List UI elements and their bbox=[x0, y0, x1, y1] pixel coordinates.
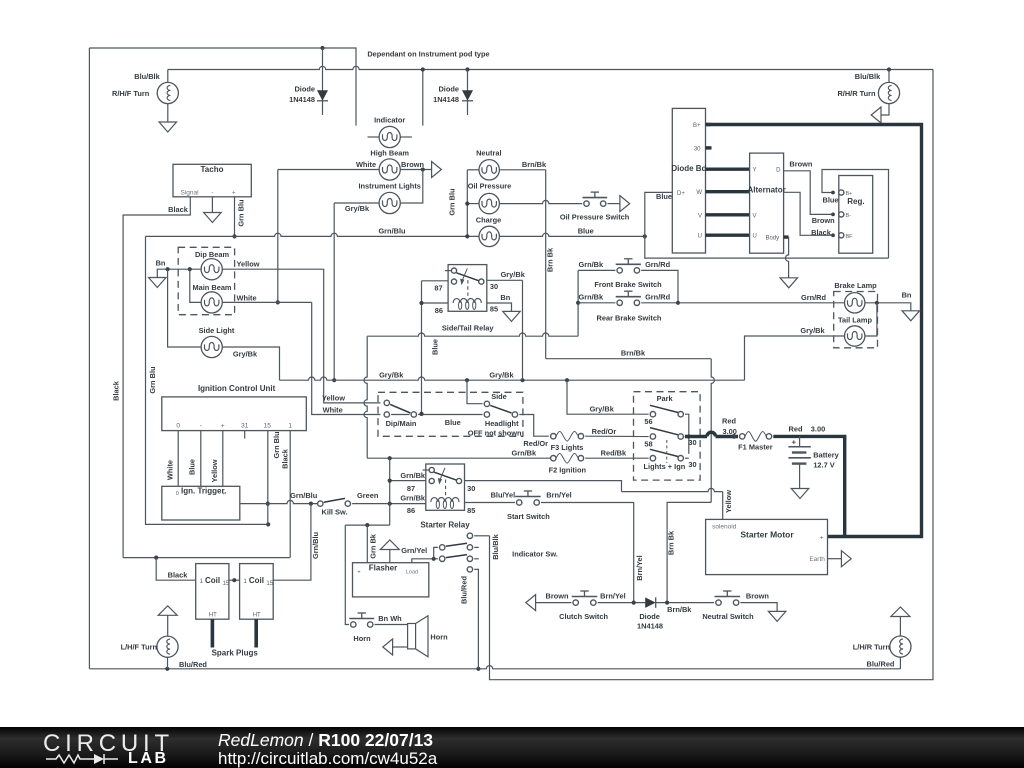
svg-text:Grn Blu: Grn Blu bbox=[448, 188, 457, 216]
lamp cluster bus Grn Blu x=467.3 bbox=[466, 170, 468, 237]
speaker Horn bbox=[408, 624, 416, 649]
thick wire B+ main bbox=[706, 125, 922, 537]
offpage arrow horn bbox=[383, 639, 393, 655]
svg-text:Brn/Bk: Brn/Bk bbox=[667, 605, 692, 614]
svg-text:Alternator: Alternator bbox=[747, 186, 785, 195]
box Alternator bbox=[750, 153, 784, 253]
svg-text:OFF not shown: OFF not shown bbox=[468, 428, 522, 437]
svg-text:Brown: Brown bbox=[812, 216, 835, 225]
wire starter relay 30 to solenoid bbox=[465, 481, 622, 492]
svg-text:Neutral Switch: Neutral Switch bbox=[702, 612, 754, 621]
svg-text:Ign. Trigger.: Ign. Trigger. bbox=[181, 486, 226, 495]
svg-text:+: + bbox=[792, 437, 797, 446]
svg-text:U: U bbox=[698, 234, 702, 240]
svg-text:Tail Lamp: Tail Lamp bbox=[838, 315, 872, 324]
svg-text:D+: D+ bbox=[677, 191, 685, 197]
svg-text:Blu/Red: Blu/Red bbox=[460, 576, 469, 604]
wire ICU pin 1 Black bbox=[289, 431, 291, 558]
svg-text:Start Switch: Start Switch bbox=[507, 512, 550, 521]
battery bbox=[799, 436, 801, 446]
svg-text:Brake Lamp: Brake Lamp bbox=[834, 281, 877, 290]
wire side/tail 30 Gry/Bk down bbox=[487, 279, 523, 281]
wire black to coil1 bbox=[156, 558, 196, 581]
ground Bn tail bbox=[902, 311, 920, 321]
svg-text:Oil Pressure: Oil Pressure bbox=[468, 182, 512, 191]
svg-text:Gry/Bk: Gry/Bk bbox=[379, 371, 404, 380]
svg-text:86: 86 bbox=[435, 306, 443, 315]
fuse F3 Lights bbox=[551, 434, 556, 439]
svg-text:Bn: Bn bbox=[156, 259, 166, 268]
svg-text:Yellow: Yellow bbox=[724, 490, 733, 513]
svg-text:Gry/Bk: Gry/Bk bbox=[501, 270, 526, 279]
svg-text:R/H/R Turn: R/H/R Turn bbox=[837, 89, 876, 98]
svg-text:Diode: Diode bbox=[639, 612, 660, 621]
wire stub from line B down at x=422.8 (open) bbox=[422, 70, 424, 126]
wire Blu/Blk top loop (line B y=69.5) bbox=[168, 66, 933, 69]
wire Brown from D to regulator B- bbox=[784, 171, 833, 215]
svg-text:Red: Red bbox=[722, 416, 736, 425]
svg-text:Blu/Red: Blu/Red bbox=[867, 660, 895, 669]
svg-text:Reg.: Reg. bbox=[847, 197, 864, 206]
wire Grn Blu left vertical x=145.5 bbox=[146, 236, 269, 524]
wire Blu/Blk right loop: x=489.5 down, bottom y=679.7, right border x=933 bbox=[490, 70, 934, 680]
svg-text:Yellow: Yellow bbox=[322, 393, 345, 402]
node Blu/Red - indicator switch junction bbox=[476, 667, 480, 671]
svg-text:solenoid: solenoid bbox=[712, 524, 737, 531]
wire bus y=525.1 flasher/horn bbox=[345, 524, 389, 526]
svg-text:Side Light: Side Light bbox=[199, 326, 235, 335]
svg-text:Blue: Blue bbox=[430, 339, 439, 355]
lamp Tail bbox=[845, 326, 865, 346]
wire Yellow from dip beam bbox=[222, 269, 380, 403]
wire oil lamp to oil switch bbox=[499, 200, 582, 203]
svg-text:Park: Park bbox=[657, 394, 674, 403]
ground neutral switch bbox=[768, 611, 786, 621]
svg-text:Grn/Blu: Grn/Blu bbox=[311, 531, 320, 559]
svg-text:Green: Green bbox=[357, 491, 379, 500]
node 30 junction bbox=[687, 434, 691, 438]
fuse F1 Master bbox=[740, 434, 745, 439]
svg-text:Blue: Blue bbox=[188, 459, 197, 475]
svg-text:BF: BF bbox=[846, 234, 854, 240]
wire neutral diode row y=602.6 bbox=[526, 595, 536, 611]
svg-text:Grn/Blu: Grn/Blu bbox=[378, 227, 406, 236]
ground alternator body bbox=[780, 278, 798, 288]
lamp Dip Beam bbox=[201, 259, 222, 280]
svg-text:Blu/Red: Blu/Red bbox=[179, 660, 207, 669]
box Ign Trigger bbox=[162, 486, 240, 520]
lamp R/H/R Turn bbox=[887, 67, 891, 71]
wire 56 out bbox=[685, 414, 689, 454]
switch Indicator multi bbox=[467, 533, 472, 538]
lamp Neutral bbox=[479, 160, 499, 180]
svg-text:Blu/Blk: Blu/Blk bbox=[134, 72, 160, 81]
offpage arrow oil pressure bbox=[620, 196, 630, 212]
lamp Side Light bbox=[201, 336, 222, 357]
svg-text:Instrument Lights: Instrument Lights bbox=[358, 182, 420, 191]
wire Brn/Bk long y=358.7 bbox=[546, 358, 712, 360]
svg-text:Y: Y bbox=[753, 168, 757, 174]
wire side/tail 85 to ground bbox=[487, 303, 512, 311]
ground R/H/F Turn bbox=[159, 122, 177, 132]
switch Clutch bbox=[573, 600, 578, 605]
wire Grn/Blu bus y=236.4 bbox=[146, 233, 479, 236]
svg-text:Grn/Rd: Grn/Rd bbox=[645, 292, 671, 301]
node Blu/Red - L/H/F lamp junction bbox=[165, 667, 169, 671]
svg-text:86: 86 bbox=[407, 506, 415, 515]
svg-text:Diode Bd: Diode Bd bbox=[671, 164, 706, 173]
switch Oil Pressure bbox=[584, 201, 589, 206]
svg-text:F2 Ignition: F2 Ignition bbox=[549, 466, 587, 475]
wire White to instrument lamp bbox=[278, 169, 379, 171]
svg-text:Grn/Bk: Grn/Bk bbox=[578, 292, 604, 301]
svg-text:Black: Black bbox=[811, 228, 832, 237]
dashed box Park switch bbox=[634, 392, 701, 480]
svg-text:Coil: Coil bbox=[249, 576, 264, 585]
svg-text:Blu/Blk: Blu/Blk bbox=[855, 72, 881, 81]
svg-text:Blue: Blue bbox=[445, 418, 461, 427]
spark plug 2 bbox=[254, 619, 258, 647]
svg-text:Front Brake Switch: Front Brake Switch bbox=[594, 280, 662, 289]
svg-text:85: 85 bbox=[467, 506, 475, 515]
wire Green kill to starter relay bbox=[352, 503, 426, 505]
lamp Indicator with stubs bbox=[368, 136, 380, 138]
svg-text:Gry/Bk: Gry/Bk bbox=[800, 326, 825, 335]
switch Kill Sw bbox=[318, 501, 323, 506]
svg-text:87: 87 bbox=[407, 484, 415, 493]
spark plug 1 bbox=[211, 619, 215, 647]
svg-text:Brn/Bk: Brn/Bk bbox=[621, 349, 646, 358]
node gry/bk relay30 feed bbox=[520, 378, 524, 382]
thick wires diode board to alternator bbox=[706, 167, 750, 170]
switch park 56 bbox=[650, 412, 655, 417]
relay Starter bbox=[426, 464, 465, 510]
svg-text:Lights + Ign: Lights + Ign bbox=[644, 462, 686, 471]
svg-text:30: 30 bbox=[694, 146, 701, 152]
svg-text:31: 31 bbox=[241, 423, 249, 430]
svg-text:U: U bbox=[753, 234, 757, 240]
wire tail lamp link bbox=[865, 303, 877, 336]
svg-text:High Beam: High Beam bbox=[370, 149, 409, 158]
svg-text:Indicator: Indicator bbox=[374, 116, 405, 125]
svg-text:Grn Blu: Grn Blu bbox=[237, 199, 246, 227]
svg-text:Kill Sw.: Kill Sw. bbox=[321, 507, 347, 516]
svg-text:30: 30 bbox=[688, 438, 696, 447]
svg-text:Grn/Bk: Grn/Bk bbox=[400, 471, 426, 480]
wire Brn Bk vertical x=545.7 bbox=[545, 170, 547, 359]
lamp Oil Pressure bbox=[479, 193, 499, 213]
node gry/bk park 56 feed bbox=[565, 378, 569, 382]
svg-text:Coil: Coil bbox=[205, 576, 220, 585]
svg-text:F3 Lights: F3 Lights bbox=[551, 443, 584, 452]
svg-text:F1 Master: F1 Master bbox=[738, 442, 773, 451]
svg-text:Dip/Main: Dip/Main bbox=[386, 419, 417, 428]
svg-text:Signal: Signal bbox=[180, 190, 199, 197]
svg-text:Blu/Yel: Blu/Yel bbox=[491, 490, 516, 499]
dashed box brake/tail lamp bbox=[834, 292, 878, 348]
svg-text:Clutch Switch: Clutch Switch bbox=[559, 612, 608, 621]
svg-text:V: V bbox=[698, 213, 702, 219]
svg-text:Black: Black bbox=[280, 448, 289, 469]
wire side light right Gry/Bk bbox=[222, 347, 279, 380]
wire F3 to park 58 bbox=[585, 435, 648, 437]
wire starter relay 87 bbox=[390, 480, 426, 482]
svg-text:B+: B+ bbox=[846, 191, 853, 197]
chassis arrow flasher bbox=[380, 540, 399, 550]
svg-text:Indicator Sw.: Indicator Sw. bbox=[512, 550, 558, 559]
svg-text:Spark Plugs: Spark Plugs bbox=[212, 648, 259, 657]
wire tail lamp left pin bbox=[843, 335, 845, 337]
wire flasher + feed bbox=[366, 525, 368, 563]
wire Tacho signal Black bbox=[123, 197, 190, 558]
box Reg bbox=[839, 176, 873, 254]
wire earth to arrow bbox=[828, 558, 842, 560]
svg-text:30: 30 bbox=[490, 282, 498, 291]
wire kill switch row from ign trigger bbox=[240, 500, 317, 503]
wire Tacho mid pin to ground bbox=[211, 197, 213, 213]
svg-text:Side: Side bbox=[491, 392, 507, 401]
svg-text:V: V bbox=[753, 213, 757, 219]
lamp Main Beam bbox=[201, 292, 222, 313]
wire Yellow solenoid riser bbox=[722, 492, 724, 520]
svg-text:+: + bbox=[357, 570, 360, 576]
wire main beam left link bbox=[190, 269, 201, 302]
wire side/tail 86 bbox=[422, 302, 449, 304]
svg-text:Grn/Bk: Grn/Bk bbox=[578, 260, 604, 269]
svg-text:Black: Black bbox=[111, 380, 120, 401]
svg-text:1N4148: 1N4148 bbox=[289, 95, 315, 104]
node black coil feed bbox=[154, 556, 158, 560]
svg-text:Brn Bk: Brn Bk bbox=[667, 530, 676, 555]
wire ICU pin 0 white bbox=[177, 431, 179, 487]
switch Rear Brake bbox=[578, 302, 615, 304]
wire Grn/Bk tail bus y=336.2 bbox=[367, 333, 578, 336]
svg-text:1N4148: 1N4148 bbox=[433, 95, 459, 104]
svg-text:Neutral: Neutral bbox=[476, 149, 501, 158]
svg-text:1N4148: 1N4148 bbox=[637, 621, 663, 630]
wire Blue riser to D+ bbox=[645, 192, 673, 236]
svg-text:W: W bbox=[696, 190, 702, 196]
lamp R/H/F Turn bbox=[167, 70, 169, 83]
wire ICU pin - blue bbox=[200, 431, 202, 487]
wire coil1-coil2 link bbox=[229, 579, 240, 581]
svg-text:Brn Bk: Brn Bk bbox=[546, 247, 555, 272]
lamp Charge bbox=[479, 226, 499, 246]
svg-text:12.7 V: 12.7 V bbox=[813, 460, 834, 469]
wire horn button to speaker bbox=[375, 624, 408, 626]
wire Tacho + pin Grn Blu bbox=[234, 197, 236, 237]
wire ICU pin 15 Grn Blu bbox=[267, 431, 269, 525]
box Flasher bbox=[353, 563, 429, 597]
svg-text:Diode: Diode bbox=[438, 85, 459, 94]
svg-text:Brown: Brown bbox=[789, 160, 812, 169]
svg-text:Yellow: Yellow bbox=[237, 260, 260, 269]
wire Blue from charge lamp bbox=[499, 233, 644, 236]
lamp L/H/R Turn with chassis arrow bbox=[891, 607, 910, 617]
svg-text:Headlight: Headlight bbox=[485, 419, 519, 428]
svg-text:Grn Bk: Grn Bk bbox=[368, 533, 377, 559]
lamp Instrument Lights (gry/bk) bbox=[379, 192, 400, 213]
svg-text:Bn: Bn bbox=[500, 293, 510, 302]
switch Start bbox=[517, 500, 522, 505]
svg-text:Diode: Diode bbox=[294, 85, 315, 94]
svg-text:56: 56 bbox=[644, 417, 652, 426]
switch Horn button bbox=[351, 622, 356, 627]
svg-text:Grn/Rd: Grn/Rd bbox=[645, 260, 671, 269]
offpage arrow Brown bbox=[432, 162, 442, 178]
wire Grn/Blu to coil2 bbox=[273, 504, 311, 581]
svg-text:Bn: Bn bbox=[902, 290, 912, 299]
svg-text:30: 30 bbox=[688, 460, 696, 469]
svg-text:Grn/Yel: Grn/Yel bbox=[401, 546, 427, 555]
switch Dip/Main bbox=[384, 400, 389, 405]
svg-text:Horn: Horn bbox=[353, 634, 371, 643]
svg-text:Blu/Blk: Blu/Blk bbox=[491, 533, 500, 559]
svg-text:+: + bbox=[232, 190, 236, 197]
svg-text:Brown: Brown bbox=[401, 160, 424, 169]
node main beam branch bbox=[188, 267, 192, 271]
diode D1 1N4148 bbox=[320, 46, 324, 50]
wire tail lamp riser x=744.5 bbox=[745, 336, 845, 380]
wire left border (Black/Blu-Red loop x=89.4) bbox=[88, 48, 90, 669]
wire White from main beam bbox=[222, 301, 311, 303]
svg-text:Gry/Bk: Gry/Bk bbox=[345, 204, 370, 213]
svg-text:Grn/Rd: Grn/Rd bbox=[801, 293, 827, 302]
svg-text:Brn/Yel: Brn/Yel bbox=[546, 490, 571, 499]
svg-text:Blue: Blue bbox=[578, 226, 594, 235]
svg-text:-: - bbox=[200, 423, 202, 430]
wire top-left line A y=48 with corner down at x=356 bbox=[89, 48, 356, 126]
wire Black from alternator to BF bbox=[784, 192, 833, 235]
diode D3 1N4148 bbox=[645, 597, 656, 608]
svg-text:White: White bbox=[323, 406, 343, 415]
svg-text:Brn/Bk: Brn/Bk bbox=[522, 160, 547, 169]
svg-text:15: 15 bbox=[223, 581, 230, 587]
svg-text:Gry/Bk: Gry/Bk bbox=[489, 371, 514, 380]
lamp Brake bbox=[845, 293, 865, 313]
svg-text:Blue: Blue bbox=[656, 192, 672, 201]
svg-text:B+: B+ bbox=[693, 123, 701, 129]
svg-text:Side/Tail Relay: Side/Tail Relay bbox=[442, 324, 495, 333]
switch Front Brake bbox=[578, 269, 615, 271]
wire Brn/Bk drop x=711.2 to diode node bbox=[711, 359, 714, 503]
svg-text:+: + bbox=[820, 534, 824, 541]
wire Grn/Bk vertical x=367.2 bbox=[364, 336, 367, 458]
svg-text:Bn Wh: Bn Wh bbox=[378, 614, 402, 623]
svg-text:Brn/Yel: Brn/Yel bbox=[635, 555, 644, 580]
wire Brn/Bk from neutral lamp bbox=[499, 169, 545, 171]
svg-text:Starter Motor: Starter Motor bbox=[740, 529, 794, 539]
fuse F2 Ignition bbox=[551, 456, 556, 461]
svg-text:White: White bbox=[237, 294, 257, 303]
wire bottom Blu/Red y=668.8 bbox=[89, 666, 900, 669]
node gry/bk side feed bbox=[465, 378, 469, 382]
switch lights+ign bbox=[650, 456, 655, 461]
svg-text:Gry/Bk: Gry/Bk bbox=[590, 404, 615, 413]
wire White vertical x=277.8 bbox=[277, 170, 279, 303]
wire Black bus bottom y=557.6 bbox=[123, 557, 289, 559]
wire grn/bk vertical x=389.7 bbox=[389, 458, 391, 525]
wire instrument lights right to Brown node bbox=[400, 170, 423, 204]
svg-text:0: 0 bbox=[176, 491, 179, 497]
wire side light left bbox=[168, 269, 202, 347]
svg-text:Grn Blu: Grn Blu bbox=[148, 366, 157, 394]
wire horn feed x=346.1 down bbox=[345, 525, 349, 624]
svg-text:HT: HT bbox=[209, 612, 217, 618]
svg-text:Blue: Blue bbox=[822, 195, 838, 204]
svg-text:Grn/Blu: Grn/Blu bbox=[290, 491, 318, 500]
switch park 58 bbox=[650, 434, 655, 439]
box Coil 2 bbox=[240, 564, 274, 620]
svg-text:Red/Or: Red/Or bbox=[592, 427, 617, 436]
svg-text:-: - bbox=[211, 190, 213, 197]
wire brake lamp right to Bn ground bbox=[865, 303, 911, 311]
svg-text:Rear Brake Switch: Rear Brake Switch bbox=[597, 314, 662, 323]
ground Bn dip beam bbox=[149, 278, 167, 288]
wire Blue vertical relay feed x=421.5 bbox=[421, 281, 423, 414]
svg-text:Grn/Bk: Grn/Bk bbox=[511, 449, 537, 458]
wire alternator body to ground bbox=[784, 235, 789, 238]
svg-text:Gry/Bk: Gry/Bk bbox=[233, 350, 258, 359]
svg-text:Body: Body bbox=[766, 236, 780, 242]
wire dip/main out Blue bbox=[391, 414, 409, 416]
dashed box headlight switch bbox=[378, 392, 523, 436]
svg-text:Black: Black bbox=[168, 571, 189, 580]
svg-text:L/H/R Turn: L/H/R Turn bbox=[853, 643, 891, 652]
svg-text:Load: Load bbox=[406, 570, 418, 576]
wire ICU pin + yellow bbox=[222, 431, 224, 487]
wire headlight out to F3 bbox=[519, 415, 549, 437]
svg-text:Black: Black bbox=[168, 205, 189, 214]
wire side/tail 87 bbox=[422, 280, 449, 282]
lamp High Beam indicator (white/brown) bbox=[379, 159, 400, 180]
wire lights+ign out bbox=[685, 457, 689, 459]
box Ignition Control Unit bbox=[162, 397, 306, 431]
thick wire park 30 to F1 bbox=[685, 436, 689, 438]
wire Gry/Bk bus y=380.2 bbox=[280, 377, 745, 380]
svg-text:Earth: Earth bbox=[809, 556, 825, 563]
svg-text:R/H/F Turn: R/H/F Turn bbox=[112, 89, 150, 98]
svg-text:Ignition Control Unit: Ignition Control Unit bbox=[198, 384, 276, 393]
svg-text:58: 58 bbox=[644, 440, 652, 449]
dashed box dip/main beam bbox=[178, 247, 234, 314]
wire side feed from gry/bk bbox=[467, 380, 483, 404]
svg-text:Battery: Battery bbox=[813, 450, 839, 459]
box Tacho bbox=[173, 164, 251, 197]
wire 56 feed bbox=[567, 380, 649, 414]
svg-text:Yellow: Yellow bbox=[210, 459, 219, 482]
svg-text:Dependant on Instrument pod ty: Dependant on Instrument pod type bbox=[367, 50, 489, 59]
box Diode Bd bbox=[672, 108, 705, 253]
switch Side/Headlight bbox=[484, 401, 489, 406]
svg-text:0: 0 bbox=[176, 423, 180, 430]
wire Gry/Bk from instrument lamp down to Gry/Bk bus bbox=[334, 202, 379, 204]
svg-text:Brown: Brown bbox=[746, 592, 769, 601]
svg-text:Tacho: Tacho bbox=[201, 165, 224, 174]
svg-text:Red/Bk: Red/Bk bbox=[601, 449, 627, 458]
svg-text:Starter Relay: Starter Relay bbox=[420, 521, 470, 530]
svg-text:Red: Red bbox=[789, 424, 803, 433]
svg-text:Brn/Yel: Brn/Yel bbox=[600, 592, 625, 601]
svg-text:15: 15 bbox=[264, 423, 272, 430]
svg-text:HT: HT bbox=[253, 612, 261, 618]
node side light branch bbox=[166, 267, 170, 271]
svg-text:15: 15 bbox=[266, 581, 273, 587]
wire brake switch riser x=578.1 bbox=[577, 270, 579, 336]
svg-text:Charge: Charge bbox=[476, 216, 501, 225]
wire flasher load to indicator switch bbox=[412, 559, 438, 563]
svg-text:+: + bbox=[221, 423, 225, 430]
